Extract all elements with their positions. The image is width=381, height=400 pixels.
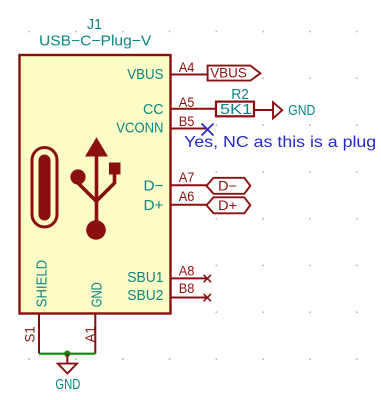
pin A7 D- <box>171 184 207 186</box>
global net label D+ <box>207 197 251 213</box>
svg-text:B5: B5 <box>179 114 195 129</box>
svg-text:D+: D+ <box>218 198 237 213</box>
svg-text:GND: GND <box>89 282 106 307</box>
svg-text:CC: CC <box>143 101 164 118</box>
svg-text:J1: J1 <box>87 16 102 33</box>
global net label VBUS <box>208 66 261 81</box>
svg-text:5K1: 5K1 <box>220 102 252 118</box>
connector J1 body <box>20 55 171 314</box>
wire R2 to GND symbol <box>254 109 273 111</box>
pin A4 VBUS <box>171 74 208 76</box>
svg-text:VBUS: VBUS <box>127 66 163 83</box>
pin A5 CC <box>171 108 217 110</box>
svg-text:D−: D− <box>218 179 237 194</box>
no-connect flag on B5 <box>202 124 214 136</box>
unconnected-pin x mark B8 <box>204 294 211 301</box>
pin B8 SBU2 <box>171 297 208 299</box>
pin B5 VCONN <box>171 128 208 130</box>
svg-text:GND: GND <box>288 102 315 119</box>
svg-text:SHIELD: SHIELD <box>34 260 51 307</box>
usb-c connector outline glyph <box>32 148 57 228</box>
pin S1 SHIELD <box>38 314 40 354</box>
svg-text:A8: A8 <box>179 264 195 279</box>
svg-text:A5: A5 <box>179 95 195 110</box>
pin A6 D+ <box>171 204 207 206</box>
junction <box>64 351 70 357</box>
svg-text:D−: D− <box>144 177 164 194</box>
svg-text:A7: A7 <box>179 170 195 185</box>
svg-text:B8: B8 <box>179 281 195 296</box>
svg-text:VCONN: VCONN <box>116 120 163 137</box>
svg-text:GND: GND <box>55 376 80 393</box>
svg-text:USB−C−Plug−V: USB−C−Plug−V <box>39 33 151 50</box>
svg-text:S1: S1 <box>22 326 38 343</box>
power symbol GND (bottom) <box>55 364 80 394</box>
svg-text:VBUS: VBUS <box>210 66 247 81</box>
pin A8 SBU1 <box>171 277 208 279</box>
pin A1 GND <box>94 314 96 354</box>
svg-text:R2: R2 <box>231 86 249 103</box>
power symbol GND (right) <box>273 102 315 119</box>
svg-text:A1: A1 <box>82 326 98 343</box>
resistor R2 body <box>216 102 254 117</box>
svg-text:D+: D+ <box>144 197 164 214</box>
wire junction to GND symbol <box>66 354 68 364</box>
svg-text:Yes, NC as this is a plug: Yes, NC as this is a plug <box>184 134 376 151</box>
svg-text:A4: A4 <box>179 60 195 75</box>
wire S1 to A1 <box>39 353 95 355</box>
unconnected-pin x mark A8 <box>204 275 211 282</box>
svg-text:SBU1: SBU1 <box>127 269 163 286</box>
svg-text:A6: A6 <box>179 189 195 204</box>
global net label D- <box>207 178 251 194</box>
svg-text:SBU2: SBU2 <box>127 287 163 304</box>
usb trident logo <box>70 137 120 240</box>
